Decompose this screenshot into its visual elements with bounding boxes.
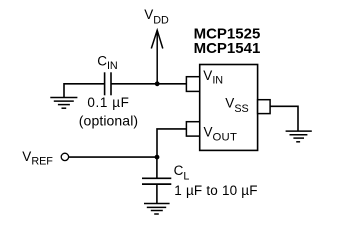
VDD supply arrow [151, 30, 163, 84]
wire junction to CL top plate [156, 157, 158, 178]
svg-text:MCP1541: MCP1541 [194, 40, 261, 57]
capacitor C_L plates [142, 178, 171, 184]
ground symbol left [50, 98, 77, 109]
node junction VOUT/VREF/CL [155, 155, 160, 160]
ground symbol right [286, 131, 312, 142]
wire CIN right plate to VIN pin [111, 83, 186, 85]
wire ground to CIN left plate [64, 84, 105, 98]
svg-text:1 µF to 10 µF: 1 µF to 10 µF [174, 183, 257, 198]
ground symbol bottom [144, 204, 170, 215]
terminal circle VREF [61, 153, 68, 160]
IC U1 body [200, 65, 258, 151]
node junction VDD/VIN [155, 81, 160, 86]
wire VSS pin to right ground [270, 106, 298, 131]
capacitor C_IN plates [105, 72, 111, 95]
wire VREF to junction [69, 156, 157, 158]
wire VOUT pin to junction [157, 129, 186, 157]
wire CL bottom plate to ground [156, 184, 158, 203]
svg-text:(optional): (optional) [79, 113, 138, 129]
pin box VSS [258, 100, 271, 114]
svg-text:0.1 µF: 0.1 µF [87, 95, 129, 110]
pin box VOUT [186, 122, 199, 136]
pin box VIN [186, 77, 199, 92]
